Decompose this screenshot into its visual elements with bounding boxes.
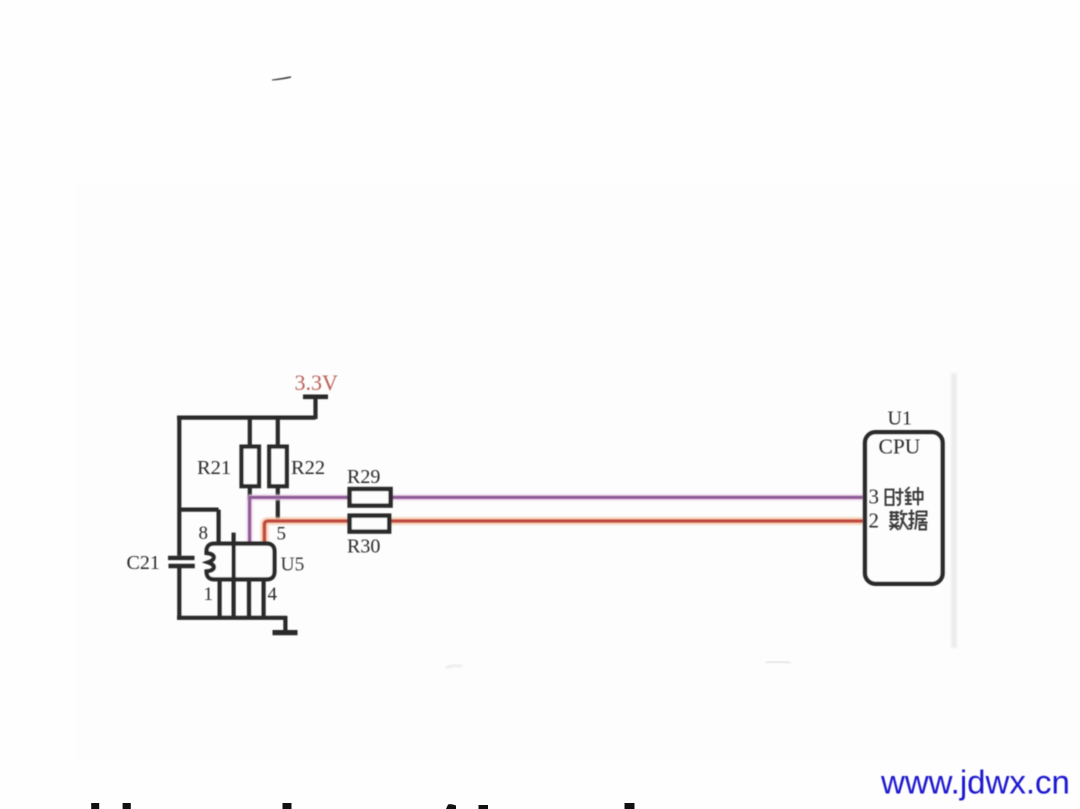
ground [273, 616, 298, 633]
wire clock purple [248, 496, 863, 545]
video frame faint backdrop [75, 185, 1080, 760]
wire data red [264, 521, 863, 545]
svg-text:1: 1 [204, 584, 214, 605]
svg-text:U5: U5 [281, 555, 305, 576]
faint dash artifact top [272, 76, 291, 80]
bottom cropped glyph fragments [91, 803, 634, 809]
crystal U5 [207, 533, 275, 618]
svg-text:U1: U1 [888, 408, 912, 430]
faint smudge artifacts [446, 665, 462, 668]
svg-text:4: 4 [268, 584, 278, 605]
capacitor C21 [168, 558, 195, 566]
net name 时钟 (clock) hand-drawn [886, 487, 923, 506]
svg-text:2: 2 [869, 509, 880, 533]
svg-text:www.jdwx.cn: www.jdwx.cn [880, 764, 1070, 801]
CPU U1 box [865, 432, 943, 584]
faint vertical streak [951, 373, 957, 648]
svg-text:R29: R29 [347, 466, 380, 488]
wire top rail [177, 416, 316, 420]
wire left branch [177, 416, 181, 620]
net name 数据 (data) hand-drawn [889, 510, 928, 531]
svg-text:3.3V: 3.3V [295, 370, 339, 395]
svg-text:C21: C21 [127, 552, 160, 574]
resistor R29 [350, 489, 391, 506]
svg-text:CPU: CPU [879, 435, 921, 459]
svg-text:8: 8 [199, 523, 209, 544]
svg-text:R22: R22 [291, 457, 325, 479]
svg-text:5: 5 [277, 524, 287, 545]
svg-text:R21: R21 [197, 457, 231, 479]
power rail 3.3V symbol [303, 397, 328, 419]
svg-text:R30: R30 [347, 536, 380, 558]
resistor R30 [350, 516, 390, 532]
resistor R22 [269, 418, 287, 521]
svg-text:3: 3 [869, 485, 880, 509]
resistor R21 [242, 418, 260, 500]
wire bottom rail [177, 616, 287, 620]
wire pin8 link [178, 510, 219, 546]
